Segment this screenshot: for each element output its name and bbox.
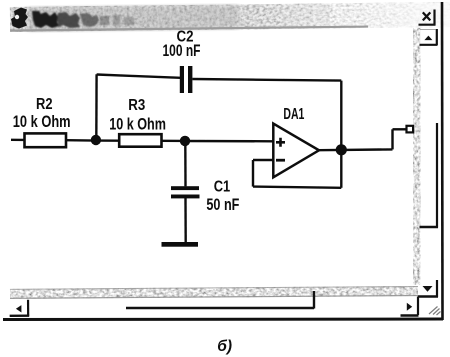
wire: feedback rise to output node — [340, 150, 342, 188]
wire: node B down to C1 — [184, 141, 187, 186]
resize grip — [429, 307, 441, 316]
wire: output stub to terminal — [393, 128, 408, 130]
svg-text:100 nF: 100 nF — [163, 41, 201, 60]
wire: riser node A up to feedback — [95, 74, 98, 140]
horizontal scrollbar thumb — [126, 291, 314, 309]
svg-text:C1: C1 — [214, 179, 231, 196]
wire: R3 to node B — [162, 140, 186, 142]
svg-text:R2: R2 — [36, 96, 53, 113]
capacitor C2 — [180, 66, 193, 93]
wire: input lead — [11, 139, 25, 141]
horizontal scrollbar track — [10, 286, 418, 299]
svg-text:R3: R3 — [128, 97, 145, 114]
svg-text:10 k Ohm: 10 k Ohm — [109, 115, 166, 134]
node B junction dot — [180, 136, 190, 146]
wire: node A to R3 — [96, 139, 120, 141]
pin - marker — [276, 159, 285, 162]
wire: feedback right drop to output node — [340, 81, 342, 150]
output terminal square — [407, 126, 414, 133]
wire: C1 to ground — [184, 198, 187, 243]
vertical scrollbar track — [413, 28, 421, 285]
resistor R2 — [25, 133, 67, 147]
window title text (illegible smudge) — [32, 11, 134, 28]
close button X — [419, 10, 436, 26]
svg-text:10 k Ohm: 10 k Ohm — [13, 112, 71, 131]
wire: output run right — [319, 148, 393, 151]
pin + marker — [276, 138, 285, 147]
scroll up button — [420, 29, 438, 45]
wire: output rise — [391, 129, 393, 149]
node C output junction dot — [336, 144, 347, 155]
resistor R3 — [119, 134, 161, 147]
ground — [162, 242, 199, 247]
wire: feedback bottom run — [253, 187, 341, 188]
wire: node B to op-amp + input — [185, 140, 273, 143]
wire: feedback left drop — [252, 160, 254, 187]
svg-text:DA1: DA1 — [283, 106, 304, 123]
capacitor C1 — [171, 186, 200, 198]
scroll right button — [401, 303, 419, 316]
vertical scrollbar thumb — [420, 123, 439, 228]
wire: - input feedback left — [253, 159, 273, 161]
op-amp DA1 — [273, 124, 319, 178]
window title icon — [11, 8, 28, 29]
scroll left button — [10, 300, 30, 317]
svg-text:50 nF: 50 nF — [206, 195, 239, 214]
window right edge — [441, 2, 444, 320]
wire: feedback top right segment — [192, 79, 341, 81]
svg-text:б): б) — [217, 338, 232, 355]
node A junction dot — [91, 135, 101, 145]
window bottom edge — [3, 318, 443, 322]
wire: feedback top left segment — [97, 75, 181, 78]
window title bar — [10, 2, 450, 32]
scroll down button — [418, 280, 438, 315]
wire: R2 to node A — [66, 139, 96, 142]
